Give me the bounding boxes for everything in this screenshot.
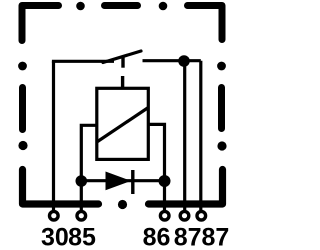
wire diode line [81, 179, 164, 182]
border left dot 1 [18, 62, 27, 71]
diode D1 cathode bar [131, 170, 134, 194]
wire switch right horizontal [143, 59, 201, 62]
wire pin87a vertical [183, 61, 186, 211]
border top dash [105, 2, 138, 9]
svg-text:8787: 8787 [174, 223, 230, 250]
border top-right corner [188, 6, 223, 40]
terminal 86 [160, 211, 169, 220]
junction dot switch output [178, 55, 190, 67]
border top dot 1 [76, 2, 85, 11]
border right dot 1 [217, 62, 226, 71]
border bottom-left corner and left bus bar [23, 170, 99, 205]
border left long dash [19, 88, 26, 130]
terminal 30 [50, 211, 59, 220]
svg-text:85: 85 [68, 223, 96, 250]
svg-text:86: 86 [143, 223, 171, 250]
diode D1 triangle [106, 172, 132, 191]
svg-text:30: 30 [41, 223, 69, 250]
wire pin87b vertical [199, 61, 202, 211]
wire coil left to pin85 [81, 125, 97, 210]
border right dot 2 [217, 141, 226, 150]
terminal 87b [197, 211, 206, 220]
terminal 85 [77, 211, 86, 220]
border top dot 2 [159, 2, 168, 11]
actuator dashed link [121, 76, 124, 88]
switch blade S1 [103, 51, 141, 63]
junction dot diode anode [76, 175, 88, 187]
switch pivot tick [121, 56, 124, 68]
junction dot diode cathode [159, 175, 171, 187]
border bottom dot [118, 200, 127, 209]
terminal 87a [180, 211, 189, 220]
relay housing dashed border: top-left corner [22, 6, 59, 41]
border left dot 2 [18, 141, 27, 150]
relay coil K1 box [97, 88, 149, 159]
wire pin30 vertical [52, 61, 55, 210]
coil diagonal [97, 108, 149, 143]
border right long dash [218, 88, 225, 129]
wire coil right to pin86 [148, 124, 165, 210]
border bottom-right corner and right bus bar [149, 170, 223, 205]
wire switch left horizontal [52, 60, 114, 63]
